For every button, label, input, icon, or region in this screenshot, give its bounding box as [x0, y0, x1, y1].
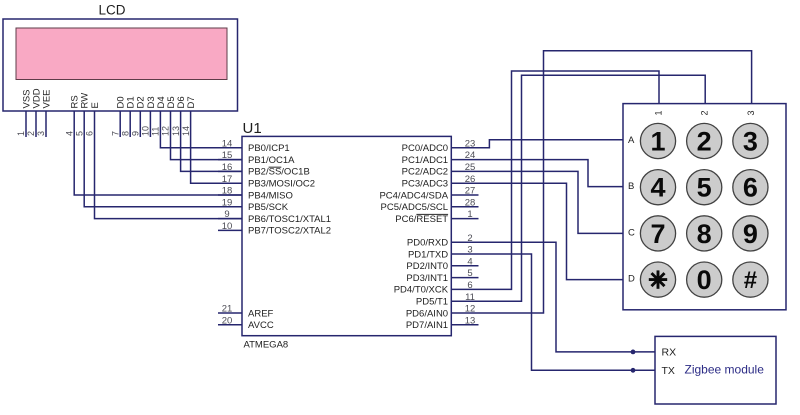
svg-text:PC6/RESET: PC6/RESET — [395, 214, 448, 225]
svg-text:#: # — [744, 267, 757, 294]
svg-text:E: E — [90, 102, 101, 108]
svg-text:3: 3 — [36, 131, 46, 136]
svg-text:10: 10 — [141, 126, 151, 136]
svg-text:A: A — [628, 135, 635, 146]
svg-text:4: 4 — [64, 131, 74, 136]
svg-text:2: 2 — [26, 131, 36, 136]
svg-text:LCD: LCD — [98, 3, 125, 18]
svg-text:4: 4 — [650, 173, 665, 203]
svg-text:PB7/TOSC2/XTAL2: PB7/TOSC2/XTAL2 — [248, 226, 331, 237]
svg-text:PD6/AIN0: PD6/AIN0 — [406, 308, 448, 319]
svg-text:7: 7 — [110, 131, 120, 136]
svg-text:PD7/AIN1: PD7/AIN1 — [406, 320, 448, 331]
svg-text:PD5/T1: PD5/T1 — [416, 297, 448, 308]
svg-text:PC3/ADC3: PC3/ADC3 — [402, 179, 448, 190]
svg-text:PB4/MISO: PB4/MISO — [248, 190, 293, 201]
svg-text:9: 9 — [131, 131, 141, 136]
svg-text:AVCC: AVCC — [248, 320, 274, 331]
svg-text:PD4/T0/XCK: PD4/T0/XCK — [394, 285, 449, 296]
svg-text:3: 3 — [746, 110, 756, 115]
svg-text:ATMEGA8: ATMEGA8 — [244, 340, 289, 351]
svg-text:PC5/ADC5/SCL: PC5/ADC5/SCL — [381, 202, 449, 213]
svg-text:20: 20 — [222, 315, 233, 326]
svg-text:7: 7 — [650, 219, 665, 249]
svg-text:1: 1 — [650, 126, 665, 156]
svg-text:2: 2 — [700, 110, 710, 115]
svg-text:8: 8 — [697, 219, 712, 249]
svg-text:AREF: AREF — [248, 308, 274, 319]
svg-text:1: 1 — [653, 110, 663, 115]
svg-text:VEE: VEE — [41, 89, 52, 108]
svg-text:PD1/TXD: PD1/TXD — [408, 249, 448, 260]
svg-text:8: 8 — [120, 131, 130, 136]
svg-text:12: 12 — [161, 126, 171, 136]
svg-text:D7: D7 — [186, 96, 197, 108]
svg-text:PB6/TOSC1/XTAL1: PB6/TOSC1/XTAL1 — [248, 214, 331, 225]
svg-text:1: 1 — [16, 131, 26, 136]
svg-text:TX: TX — [662, 365, 675, 377]
svg-text:D: D — [628, 274, 635, 285]
svg-text:PD0/RXD: PD0/RXD — [407, 238, 448, 249]
svg-text:PC4/ADC4/SDA: PC4/ADC4/SDA — [379, 190, 448, 201]
svg-text:PC0/ADC0: PC0/ADC0 — [402, 143, 448, 154]
svg-text:21: 21 — [222, 304, 233, 315]
svg-text:PB3/MOSI/OC2: PB3/MOSI/OC2 — [248, 179, 315, 190]
svg-text:5: 5 — [74, 131, 84, 136]
svg-text:PB5/SCK: PB5/SCK — [248, 202, 289, 213]
svg-text:11: 11 — [151, 127, 161, 136]
svg-text:PD2/INT0: PD2/INT0 — [406, 261, 448, 272]
svg-text:0: 0 — [697, 265, 712, 295]
svg-text:PB0/ICP1: PB0/ICP1 — [248, 143, 290, 154]
svg-text:3: 3 — [743, 126, 758, 156]
svg-text:U1: U1 — [243, 120, 262, 137]
svg-text:PB2/SS/OC1B: PB2/SS/OC1B — [248, 167, 310, 178]
svg-text:PB1/OC1A: PB1/OC1A — [248, 155, 295, 166]
svg-text:C: C — [628, 227, 635, 238]
svg-text:PC1/ADC1: PC1/ADC1 — [402, 155, 448, 166]
svg-text:2: 2 — [697, 126, 712, 156]
svg-text:9: 9 — [743, 219, 758, 249]
svg-text:5: 5 — [697, 173, 712, 203]
svg-text:6: 6 — [85, 131, 95, 136]
svg-text:10: 10 — [222, 221, 233, 232]
svg-text:B: B — [628, 181, 634, 192]
svg-text:PC2/ADC2: PC2/ADC2 — [402, 167, 448, 178]
svg-text:PD3/INT1: PD3/INT1 — [406, 273, 448, 284]
svg-text:RX: RX — [662, 346, 677, 358]
svg-text:14: 14 — [181, 126, 191, 136]
svg-text:13: 13 — [171, 126, 181, 136]
svg-text:6: 6 — [743, 173, 758, 203]
svg-text:Zigbee module: Zigbee module — [685, 362, 765, 376]
